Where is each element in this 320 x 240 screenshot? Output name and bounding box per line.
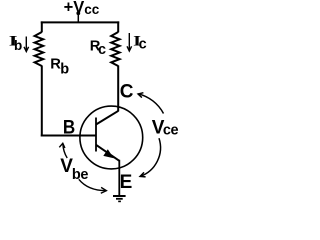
- svg-text:cc: cc: [84, 2, 100, 17]
- svg-text:be: be: [72, 167, 88, 183]
- svg-text:+V: +V: [64, 0, 85, 17]
- svg-text:C: C: [120, 82, 134, 103]
- svg-text:b: b: [14, 38, 22, 53]
- svg-text:c: c: [139, 37, 147, 53]
- svg-text:b: b: [60, 62, 69, 78]
- svg-text:ce: ce: [163, 123, 179, 139]
- svg-text:E: E: [120, 172, 133, 193]
- svg-text:B: B: [63, 117, 75, 138]
- svg-text:c: c: [98, 42, 106, 58]
